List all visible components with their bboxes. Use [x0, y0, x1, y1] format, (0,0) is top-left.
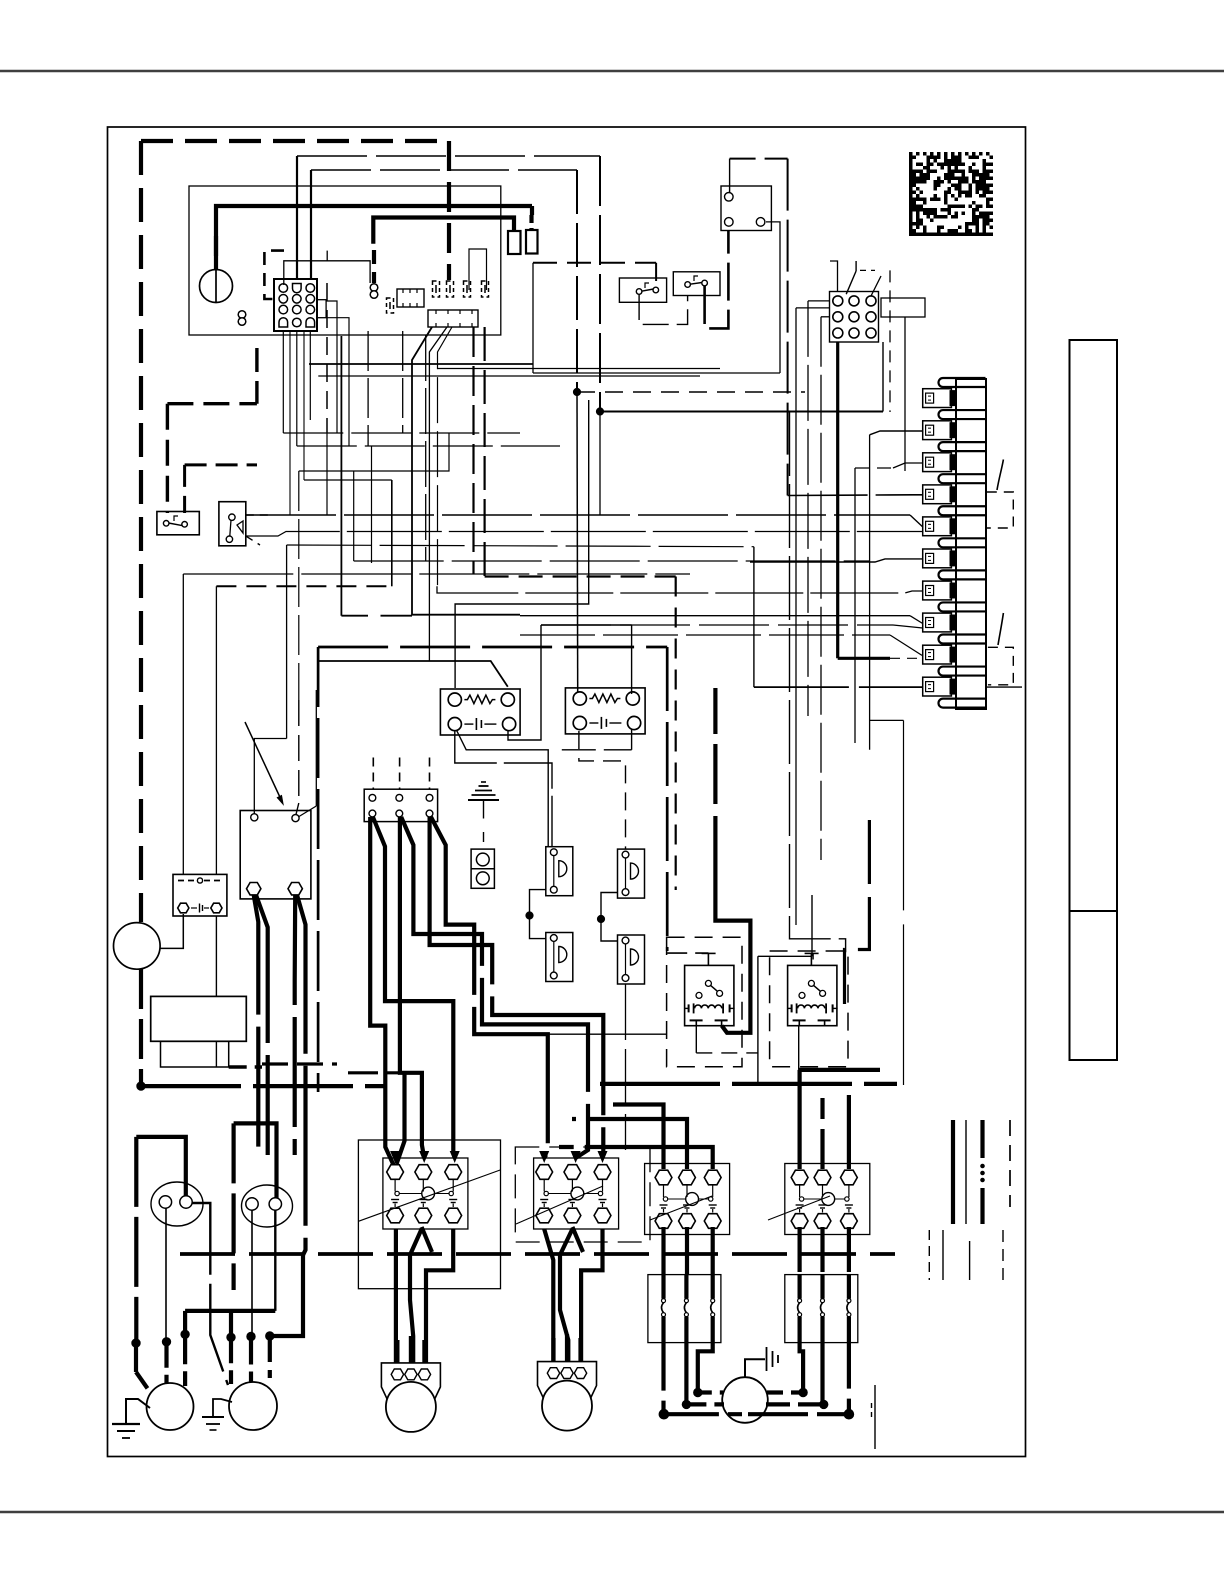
wire thick y586: [216, 585, 391, 587]
wire v808: [807, 301, 809, 716]
wire thick TB2 d: [401, 817, 588, 1158]
wire thick BRh2a: [293, 895, 298, 1155]
wire OL2 out2: [820, 1343, 824, 1405]
wire CC2 arrows: [539, 1151, 549, 1163]
sensor S2 box: [471, 849, 494, 888]
wire thick TB2 a: [370, 817, 394, 1166]
connector J2 diag: [871, 276, 881, 296]
motor M1 circle: [147, 1383, 194, 1430]
contactor CC1 pointer: [358, 1170, 500, 1221]
legend lower d: [1002, 1230, 1004, 1281]
wire OL1 out3: [698, 1343, 713, 1393]
wire thick BRh2b: [297, 895, 306, 1255]
wire p5 long: [246, 514, 910, 516]
wire heater down: [215, 1041, 217, 1067]
wire bus drop b: [576, 170, 578, 392]
wire conn down3: [309, 331, 311, 420]
plug terminal dashed low: [387, 298, 394, 313]
wire M5 left2: [686, 1402, 724, 1406]
connector J2 dash: [860, 269, 875, 271]
wire p5b: [246, 532, 923, 537]
connector J2 3x3 box: [830, 292, 879, 343]
wire M2 in2: [249, 1337, 253, 1385]
wire thick swA feed h: [167, 402, 257, 405]
wire BR c1 up: [254, 739, 286, 814]
wire v788: [787, 159, 789, 496]
wire p6: [750, 559, 923, 562]
motor M5 circle: [722, 1377, 768, 1423]
right sidebar box upper: [1070, 340, 1118, 911]
wire v286: [286, 545, 288, 739]
wire CC1 vstub: [422, 1227, 432, 1252]
pilot relay R2 enclosure: [770, 951, 848, 1067]
wire v758: [757, 956, 759, 1085]
wire PS to heater: [215, 916, 217, 996]
switch SW1 contacts: [636, 289, 642, 295]
wire v392 jog: [391, 480, 393, 586]
junction dots M2: [227, 1333, 235, 1341]
wire FR1 TR diag: [318, 661, 508, 687]
wire thick TB2 c: [373, 817, 455, 1158]
wire thick TB2 e: [430, 817, 604, 1158]
wire bus A: [141, 1084, 385, 1088]
sensor S2 circles: [476, 853, 489, 866]
connector J2 stub: [830, 261, 838, 291]
blower relay pins: [251, 814, 258, 821]
wire M5 bus: [664, 1412, 742, 1416]
connector P2: [397, 289, 424, 307]
wire K1 right down: [766, 222, 780, 373]
wire y625: [541, 624, 632, 626]
connector P3 strip: [428, 310, 478, 327]
polarity symbol 8 left: [238, 311, 246, 319]
wire CC1 out2: [410, 1229, 422, 1363]
wire fan1: [412, 327, 520, 615]
wire J2 left3: [821, 316, 830, 318]
legend lower a: [928, 1230, 930, 1280]
wire M1 in1: [134, 1343, 138, 1372]
wire v903 long: [903, 720, 905, 1085]
wire H2: [600, 411, 883, 413]
wire FR1 BL diag: [456, 730, 548, 847]
sail switch internals: [229, 514, 235, 520]
wire thick v233: [232, 1123, 236, 1290]
contactor CC2 enclosure: [515, 1147, 650, 1242]
wire y956: [758, 955, 812, 957]
limit switch LS3: [546, 933, 573, 982]
bracket B1 tick: [997, 460, 1003, 491]
wire y617 thin: [520, 615, 910, 617]
wire y576 med: [485, 575, 676, 577]
wire v905: [904, 317, 906, 471]
blower relay BR box: [240, 811, 311, 899]
wire long v484: [484, 327, 486, 577]
junction dots M5: [694, 1388, 702, 1396]
wire FR1 BR: [508, 625, 541, 740]
switch SWA contacts: [163, 521, 169, 527]
wire fan3: [438, 327, 453, 593]
wire thick y645: [318, 646, 667, 649]
wire conn down1: [282, 331, 284, 433]
wire y750 mid: [562, 749, 632, 751]
bracket B2 tick: [998, 613, 1003, 645]
wire fan2: [429, 327, 447, 661]
connector P1 12-pin: [274, 279, 317, 331]
legend thin dash: [1009, 1120, 1011, 1207]
wire CC4 out: [797, 1227, 801, 1272]
wire corner 1311: [185, 1309, 275, 1313]
contactor CC3 pointer: [650, 1196, 712, 1220]
wire p8b: [541, 624, 893, 626]
plug terminals dashed: [433, 281, 440, 297]
legend thin solid: [965, 1120, 967, 1224]
switch SW1 box: [619, 278, 666, 302]
wire thick cap2 feed: [234, 1123, 277, 1198]
wire p9 diag: [890, 635, 923, 655]
fan relay FR2: [565, 688, 645, 734]
wire M5 left1: [698, 1390, 723, 1394]
wire v183: [182, 574, 184, 874]
wire v327 mid: [326, 283, 328, 433]
wire thick p9: [838, 657, 890, 660]
limit switch LS4: [618, 935, 645, 984]
motor IDM circle: [114, 923, 161, 970]
wire y368r: [437, 368, 720, 370]
wire R1 BL dash: [696, 1052, 758, 1054]
wire cap2 right down: [274, 1210, 276, 1311]
run capacitor RC1: [151, 1182, 203, 1226]
sail switch SS box: [219, 502, 246, 546]
wire M3 feeds: [395, 1340, 399, 1363]
wire v855: [854, 468, 856, 743]
wire v367: [371, 446, 373, 563]
wire CC1 out3: [426, 1229, 453, 1363]
wire thick drop to plug: [447, 141, 451, 280]
wire p3: [855, 467, 893, 469]
pilot relay R2: [788, 965, 837, 1025]
wire p8 stub: [893, 625, 923, 628]
wire LS2-LS4: [601, 893, 618, 942]
wire p9 tail: [890, 657, 923, 659]
switch SW2 box: [673, 272, 720, 296]
wire FR1 BL v: [455, 731, 552, 846]
wire R2 thick: [845, 820, 870, 1004]
wire M1 in3: [183, 1334, 187, 1386]
wire thick BRh1b: [256, 895, 268, 1155]
blower relay arrow: [245, 722, 282, 801]
contactor CC2 pointer: [516, 1186, 603, 1224]
wire y480: [304, 479, 392, 481]
wire v299 upper: [298, 471, 300, 700]
PS bottom row: [178, 903, 189, 913]
wire bus drop a ext: [599, 412, 601, 516]
bracket B1: [987, 492, 1014, 528]
fuse F2: [526, 230, 538, 254]
wire conn h2: [297, 445, 560, 447]
wire y1064 dash: [262, 1062, 337, 1065]
run capacitor RC2: [242, 1185, 293, 1227]
wire CC1 out1: [394, 1229, 398, 1363]
wire sw1 drop: [655, 263, 657, 281]
contactor CC2: [534, 1158, 619, 1229]
wire y545: [287, 545, 754, 547]
wire v870-v903 corner: [870, 719, 904, 721]
connector P1 dashed enclosure: [264, 251, 284, 299]
wire v715 dash: [713, 688, 717, 804]
wire OL1 out2: [684, 1343, 688, 1405]
junction dot LS2: [597, 915, 604, 922]
relay K1 pins: [725, 193, 734, 202]
wire bus y1254: [180, 1252, 895, 1256]
wire v353: [353, 471, 355, 561]
wire thick v667: [666, 647, 669, 951]
wire OL1 out1: [661, 1343, 665, 1415]
wire thick transformer dash: [214, 236, 218, 256]
PS top contact: [178, 880, 196, 882]
wire thick TB2 b: [400, 817, 424, 1158]
legend lower c: [969, 1241, 971, 1280]
wire ss bottom short: [246, 536, 260, 545]
legend lower b: [942, 1230, 944, 1280]
wire thick main left lower: [139, 969, 143, 1086]
pilot relay R1: [685, 965, 734, 1025]
wire J2 left2: [796, 307, 830, 309]
wire conn down2: [296, 331, 298, 446]
wire v425: [425, 335, 427, 561]
wire thick y617: [341, 615, 368, 617]
wire v890 dash: [889, 270, 891, 412]
connector J2 tab: [881, 298, 925, 317]
wire sw dash bus: [533, 262, 656, 264]
wire CC4 feeds: [797, 1070, 801, 1169]
wire thick p9 vert: [836, 342, 839, 658]
wire bus conn col b: [310, 170, 312, 279]
wire bus top a: [297, 155, 600, 157]
wire cap2 left down: [251, 1210, 253, 1337]
wire CC3 out: [661, 1227, 665, 1275]
wire y561: [354, 560, 870, 562]
wire LS1-LS3: [530, 890, 546, 939]
wire BR diag2 up: [315, 690, 317, 806]
wire CC2 out3: [581, 1229, 602, 1363]
wire y574: [183, 573, 690, 575]
wire p2: [870, 431, 923, 435]
main diagram border: [108, 127, 1026, 1457]
heater tray: [161, 1041, 229, 1067]
junction dot LS1: [526, 912, 533, 919]
wire y376: [318, 375, 700, 377]
wire thick TB2 f: [431, 817, 548, 1158]
wire conn h1: [283, 432, 520, 434]
wire thick v136: [134, 1137, 138, 1343]
wire bus top b: [311, 169, 577, 171]
page top rule: [0, 70, 1224, 72]
wire p10: [754, 686, 923, 688]
wire thick fuse feed: [373, 218, 514, 244]
wire thick main dash top: [141, 139, 449, 143]
TB2 stub2: [399, 758, 401, 790]
fuse F1: [508, 231, 521, 254]
wire sw2-K1 thick: [705, 231, 729, 329]
wire v869: [869, 435, 871, 750]
bracket B2: [988, 647, 1013, 685]
polarity symbol 8 mid: [370, 284, 378, 292]
wire H1 dashed: [577, 391, 805, 393]
heater box: [151, 996, 247, 1041]
ground G2: [213, 1399, 232, 1417]
wire FR2 BR down: [631, 729, 633, 750]
wire p4: [788, 494, 923, 497]
wire thick BRh1a: [254, 895, 259, 1150]
TB2 stub1: [372, 758, 374, 790]
wire y1035 thin: [548, 1033, 666, 1035]
wire corner 1336: [270, 1255, 303, 1336]
wire y617 diag plug8: [910, 616, 923, 624]
wire CC2 out2: [560, 1229, 572, 1363]
terminal block TB2 pins: [369, 794, 376, 801]
wire M5 right2: [766, 1402, 824, 1406]
switch SWA box: [157, 512, 199, 535]
fan relay FR1: [440, 689, 520, 735]
wire M1 in2: [164, 1342, 168, 1384]
contactor CC4: [785, 1164, 870, 1235]
wire thick v318: [317, 647, 320, 1092]
wire t10 right: [986, 686, 1022, 688]
contactor CC1: [383, 1158, 468, 1229]
pilot relay R1 enclosure: [667, 937, 742, 1066]
wire cap1 left down: [165, 1208, 167, 1342]
wire R2 BL down: [798, 1026, 800, 1070]
wire v675 dash: [675, 577, 677, 891]
wire y373: [533, 372, 780, 374]
wire tray dash: [229, 1065, 262, 1068]
wire y364: [309, 363, 533, 365]
wire v796: [795, 308, 797, 925]
transformer T1 circle: [200, 270, 233, 303]
relay K1 box: [721, 186, 771, 231]
jumper bracket: [469, 249, 487, 290]
data matrix barcode: [909, 152, 993, 236]
wire v304: [303, 331, 305, 480]
terminal strip TB1: [939, 378, 986, 387]
wire LS4 down: [625, 984, 627, 1150]
junction dot IDM: [137, 1082, 145, 1090]
wire M4 feeds: [551, 1338, 555, 1362]
wire sw1-sw2: [639, 294, 688, 324]
wire thick cap1 feed: [136, 1137, 186, 1196]
wire thick swA v2: [183, 465, 186, 513]
TB2 stub3: [429, 758, 431, 790]
wire ss top short: [246, 514, 269, 516]
wire v290: [289, 331, 291, 515]
contactor CC4 pointer: [768, 1196, 830, 1220]
wire thick main dash left vertical: [139, 141, 143, 922]
wire p5 diag: [910, 515, 923, 527]
wire G0 stem: [483, 800, 485, 819]
wire v533: [532, 263, 534, 373]
wire CC2 out1: [544, 1229, 553, 1363]
wire long v473: [472, 327, 474, 574]
control board outline: [189, 186, 501, 335]
motor M2 circle: [229, 1382, 277, 1430]
wire y1072 dash: [348, 1071, 400, 1074]
wire thick transformer feed: [216, 206, 532, 270]
right sidebar box lower: [1070, 911, 1118, 1060]
connector J2 lever: [846, 271, 856, 294]
wire hex1 vstub: [397, 1073, 405, 1164]
wire J2 left1: [808, 300, 830, 302]
pressure switch PS box: [173, 874, 227, 916]
legend thick special: [980, 1120, 984, 1158]
legend near OL2: [874, 1385, 876, 1449]
page bottom rule: [0, 1511, 1224, 1513]
limit switch LS1: [546, 847, 573, 896]
wire M2 in1: [229, 1310, 233, 1337]
contactor CC1 enclosure: [358, 1140, 500, 1289]
wire p9: [520, 634, 890, 636]
wire v812: [811, 895, 813, 956]
ground G5: [745, 1359, 765, 1378]
wire thick fuse2 lead: [529, 215, 533, 230]
connector J2 pins: [833, 296, 843, 306]
wire CC1 arrows: [390, 1151, 400, 1163]
wire M5 right1: [767, 1390, 803, 1394]
contactor CC3: [645, 1164, 730, 1235]
wire OL2 out1: [800, 1343, 804, 1393]
wire thick v341: [340, 336, 342, 616]
wire M5 bus right: [748, 1412, 849, 1416]
wire thick v257: [255, 348, 258, 404]
wire FR2 BL dash: [579, 731, 626, 849]
wire p3b: [893, 463, 923, 468]
wire v821: [820, 317, 822, 860]
wire CC3 feeds: [613, 1105, 664, 1170]
blower relay diag2: [299, 806, 316, 817]
wire PS to motor: [160, 914, 183, 948]
wire BR c2 dash: [298, 700, 300, 803]
wire K1 top dash: [730, 158, 788, 160]
switch SW2 contacts: [685, 282, 691, 288]
junction dots M1: [132, 1339, 140, 1347]
wire CC2 vstub: [572, 1227, 583, 1252]
wire v402: [402, 331, 404, 433]
wire R2 thick out: [799, 1068, 880, 1072]
wire bus A right: [600, 1082, 897, 1086]
wire OL2 out3: [847, 1343, 851, 1415]
wire bus drop a: [599, 156, 601, 412]
wire R1 top feed: [667, 952, 708, 954]
wire P1 tab w1: [326, 301, 337, 433]
legend thick solid: [951, 1120, 955, 1224]
wire v788 lower: [790, 412, 846, 952]
wire v216: [215, 586, 217, 874]
wire node A down: [576, 392, 579, 693]
wire v327: [326, 433, 328, 515]
compressor M4: [538, 1362, 597, 1403]
wire R1 BL down: [695, 1026, 697, 1053]
wire P1 tab w2: [326, 318, 349, 446]
wire K1 up: [729, 159, 731, 192]
wire FR1 TL feed: [455, 400, 589, 688]
limit switch LS2: [618, 849, 645, 898]
wire thick dash to 8 symbol: [372, 250, 376, 283]
overload OL2: [785, 1275, 858, 1343]
wire bus conn col a: [296, 156, 298, 279]
wire v754: [753, 547, 755, 687]
junction node A: [573, 388, 580, 395]
compressor M3: [381, 1363, 440, 1404]
ground G1: [126, 1399, 150, 1424]
